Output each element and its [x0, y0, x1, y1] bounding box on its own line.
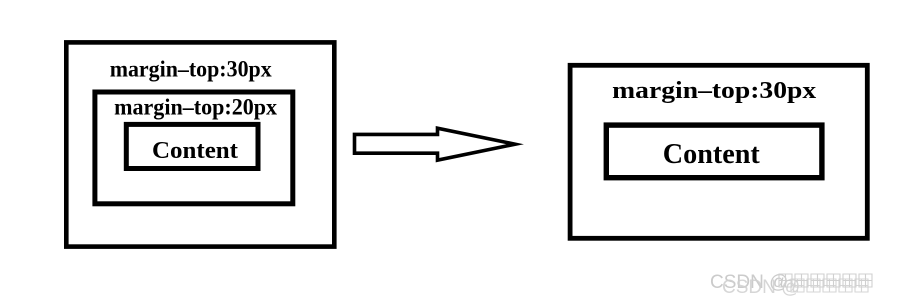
svg-text:CSDN @: CSDN @ [722, 277, 800, 298]
arrow (hollow right arrow between figures) [355, 128, 516, 160]
left outer box (margin-top:30px container) [66, 42, 334, 246]
right content box [606, 125, 822, 178]
svg-text:margin–top:20px: margin–top:20px [114, 94, 277, 119]
svg-text:Content: Content [152, 137, 239, 164]
watermark CSDN (two faint overlapping lines) [710, 272, 872, 298]
svg-text:margin–top:30px: margin–top:30px [612, 77, 817, 104]
middle box (margin-top:20px container) [95, 92, 293, 204]
left content box [126, 124, 258, 168]
right outer box (margin-top:30px container) [570, 65, 867, 238]
svg-text:Content: Content [663, 138, 760, 170]
svg-text:margin–top:30px: margin–top:30px [110, 57, 272, 82]
